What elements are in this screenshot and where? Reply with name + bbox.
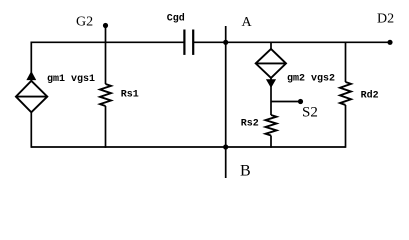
wire top rail left segment [31, 41, 184, 43]
node label S2 [302, 105, 318, 121]
capacitor Cgd [184, 30, 193, 55]
svg-text:A: A [242, 15, 253, 30]
value label gm1 vgs1 [47, 74, 95, 85]
node B junction dot [223, 144, 228, 149]
svg-text:G2: G2 [76, 14, 93, 29]
svg-text:Rs2: Rs2 [241, 119, 259, 130]
wire Rs2 to bottom rail [270, 136, 272, 148]
current source gm1 vgs1 (diamond with arrow up) [16, 72, 47, 112]
wire bottom rail [31, 146, 345, 148]
resistor Rd2 [340, 82, 351, 105]
current source gm2 vgs2 (diamond with arrow down) [256, 49, 286, 87]
wire left branch upper [30, 42, 32, 81]
resistor Rs1 [100, 84, 111, 106]
node label B [240, 163, 251, 180]
wire stub to node S2 [271, 101, 301, 103]
svg-text:Cgd: Cgd [167, 13, 185, 25]
value label Rd2 [361, 90, 379, 102]
node S2 dot [298, 99, 303, 104]
value label Rs2 [241, 119, 259, 130]
node A junction dot [223, 40, 228, 45]
value label Rs1 [121, 90, 139, 101]
svg-text:D2: D2 [377, 12, 394, 27]
wire left branch lower [30, 112, 32, 148]
wire Rs1 to bottom rail [105, 106, 107, 148]
node label A [242, 15, 253, 30]
wire gm2 branch stub from top rail [270, 42, 272, 49]
wire Rd2 branch lower [345, 105, 347, 148]
wire top rail right segment [193, 41, 390, 43]
svg-text:S2: S2 [302, 105, 318, 121]
value label gm2 vgs2 [287, 74, 335, 85]
wire Rd2 branch upper [345, 42, 347, 82]
svg-text:Rs1: Rs1 [121, 90, 139, 101]
node label G2 [76, 14, 93, 29]
wire G2 branch [105, 26, 107, 85]
svg-text:Rd2: Rd2 [361, 90, 379, 102]
value label Cgd [167, 13, 185, 25]
node G2 dot [103, 23, 108, 28]
node D2 terminal dot [387, 40, 392, 45]
svg-text:gm2 vgs2: gm2 vgs2 [287, 74, 335, 85]
wire A-B branch [225, 26, 227, 178]
resistor Rs2 [266, 115, 277, 135]
svg-text:gm1 vgs1: gm1 vgs1 [47, 74, 95, 85]
node label D2 [377, 12, 394, 27]
wire gm2 source to Rs2 [270, 78, 272, 115]
svg-text:B: B [240, 163, 251, 180]
